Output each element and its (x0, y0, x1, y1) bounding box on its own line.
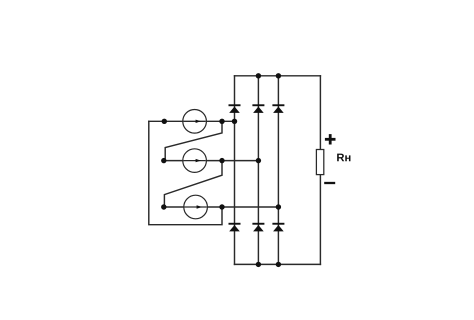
node dot phase A right terminal (219, 119, 224, 124)
wire bridge column 1 (234, 76, 236, 265)
node dot phase A left terminal (162, 119, 167, 124)
wire zigzag link B-C (164, 161, 222, 207)
node dot column2 phase B junction (256, 158, 261, 163)
node dot bottom bus column2 (256, 262, 261, 267)
wire phase A row (149, 120, 235, 122)
wire bridge column 2 (257, 76, 259, 265)
diode VD5 bottom column 2 (252, 223, 264, 232)
resistor Rn load (316, 150, 323, 175)
wire right load branch (319, 76, 321, 265)
label minus polarity (324, 182, 335, 184)
wire bottom negative bus (235, 263, 321, 265)
node dot phase B right terminal (219, 158, 224, 163)
EMF source e1 (183, 110, 207, 134)
EMF source e3 (184, 195, 208, 219)
wire zigzag link A-B (165, 121, 222, 160)
node dot top bus column3 (276, 73, 281, 78)
node dot bottom bus column3 (276, 262, 281, 267)
node dot phase C right terminal (219, 204, 224, 209)
diode VD3 top column 3 (272, 104, 284, 113)
wire top positive bus (235, 75, 321, 77)
diode VD2 top column 2 (252, 104, 264, 113)
node dot column1 phase A junction (232, 119, 237, 124)
label Rn value (337, 154, 350, 162)
label plus polarity (325, 134, 336, 144)
node dot top bus column2 (256, 73, 261, 78)
wire phase C row (164, 206, 279, 208)
node dot column3 phase C junction (276, 204, 281, 209)
diode VD4 bottom column 1 (229, 223, 241, 232)
wire bridge column 3 (277, 76, 279, 265)
wire phase B row (164, 160, 259, 162)
EMF source e2 (183, 149, 207, 173)
node dot phase C left terminal (161, 204, 166, 209)
node dot phase B left terminal (161, 158, 166, 163)
diode VD1 top column 1 (229, 104, 241, 113)
diode VD6 bottom column 3 (272, 223, 284, 232)
wire delta return path (149, 121, 222, 224)
